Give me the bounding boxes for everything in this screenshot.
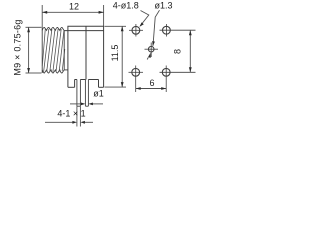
dimension 4-1 x 1 (pin size, bottom) — [45, 106, 93, 126]
svg-text:6: 6 — [149, 78, 154, 88]
svg-text:4-ø1.8: 4-ø1.8 — [113, 0, 139, 10]
svg-text:8: 8 — [172, 49, 182, 54]
thread hatch lines — [42, 29, 65, 72]
footprint view: hole top-left — [129, 24, 143, 37]
body (side view) — [64, 26, 103, 87]
dimension 11.5 (body height) — [105, 26, 127, 87]
dimension 12 (top, overall length) — [42, 5, 103, 28]
svg-text:11.5: 11.5 — [110, 45, 120, 62]
svg-text:ø1: ø1 — [93, 89, 104, 99]
dimension o1 (pin diameter) — [70, 103, 103, 105]
svg-text:ø1.3: ø1.3 — [155, 0, 173, 10]
footprint view: hole top-right — [160, 24, 196, 37]
dimension M9 x 0.75-6g (left vertical) — [26, 27, 42, 73]
dimension 8 (right vertical) — [189, 30, 191, 72]
svg-text:M9 × 0.75-6g: M9 × 0.75-6g — [13, 19, 23, 75]
svg-text:12: 12 — [69, 2, 79, 12]
footprint view: hole center — [145, 43, 159, 58]
dimension 6 (bottom horizontal) — [136, 88, 167, 90]
pins (side view) — [77, 80, 89, 107]
footprint view: hole bottom-right — [160, 66, 196, 93]
footprint view: hole bottom-left — [129, 66, 144, 93]
svg-text:4-1 × 1: 4-1 × 1 — [57, 109, 85, 119]
thread M9 (side view, hatched) — [42, 27, 64, 73]
thread runout / neck — [64, 31, 68, 70]
